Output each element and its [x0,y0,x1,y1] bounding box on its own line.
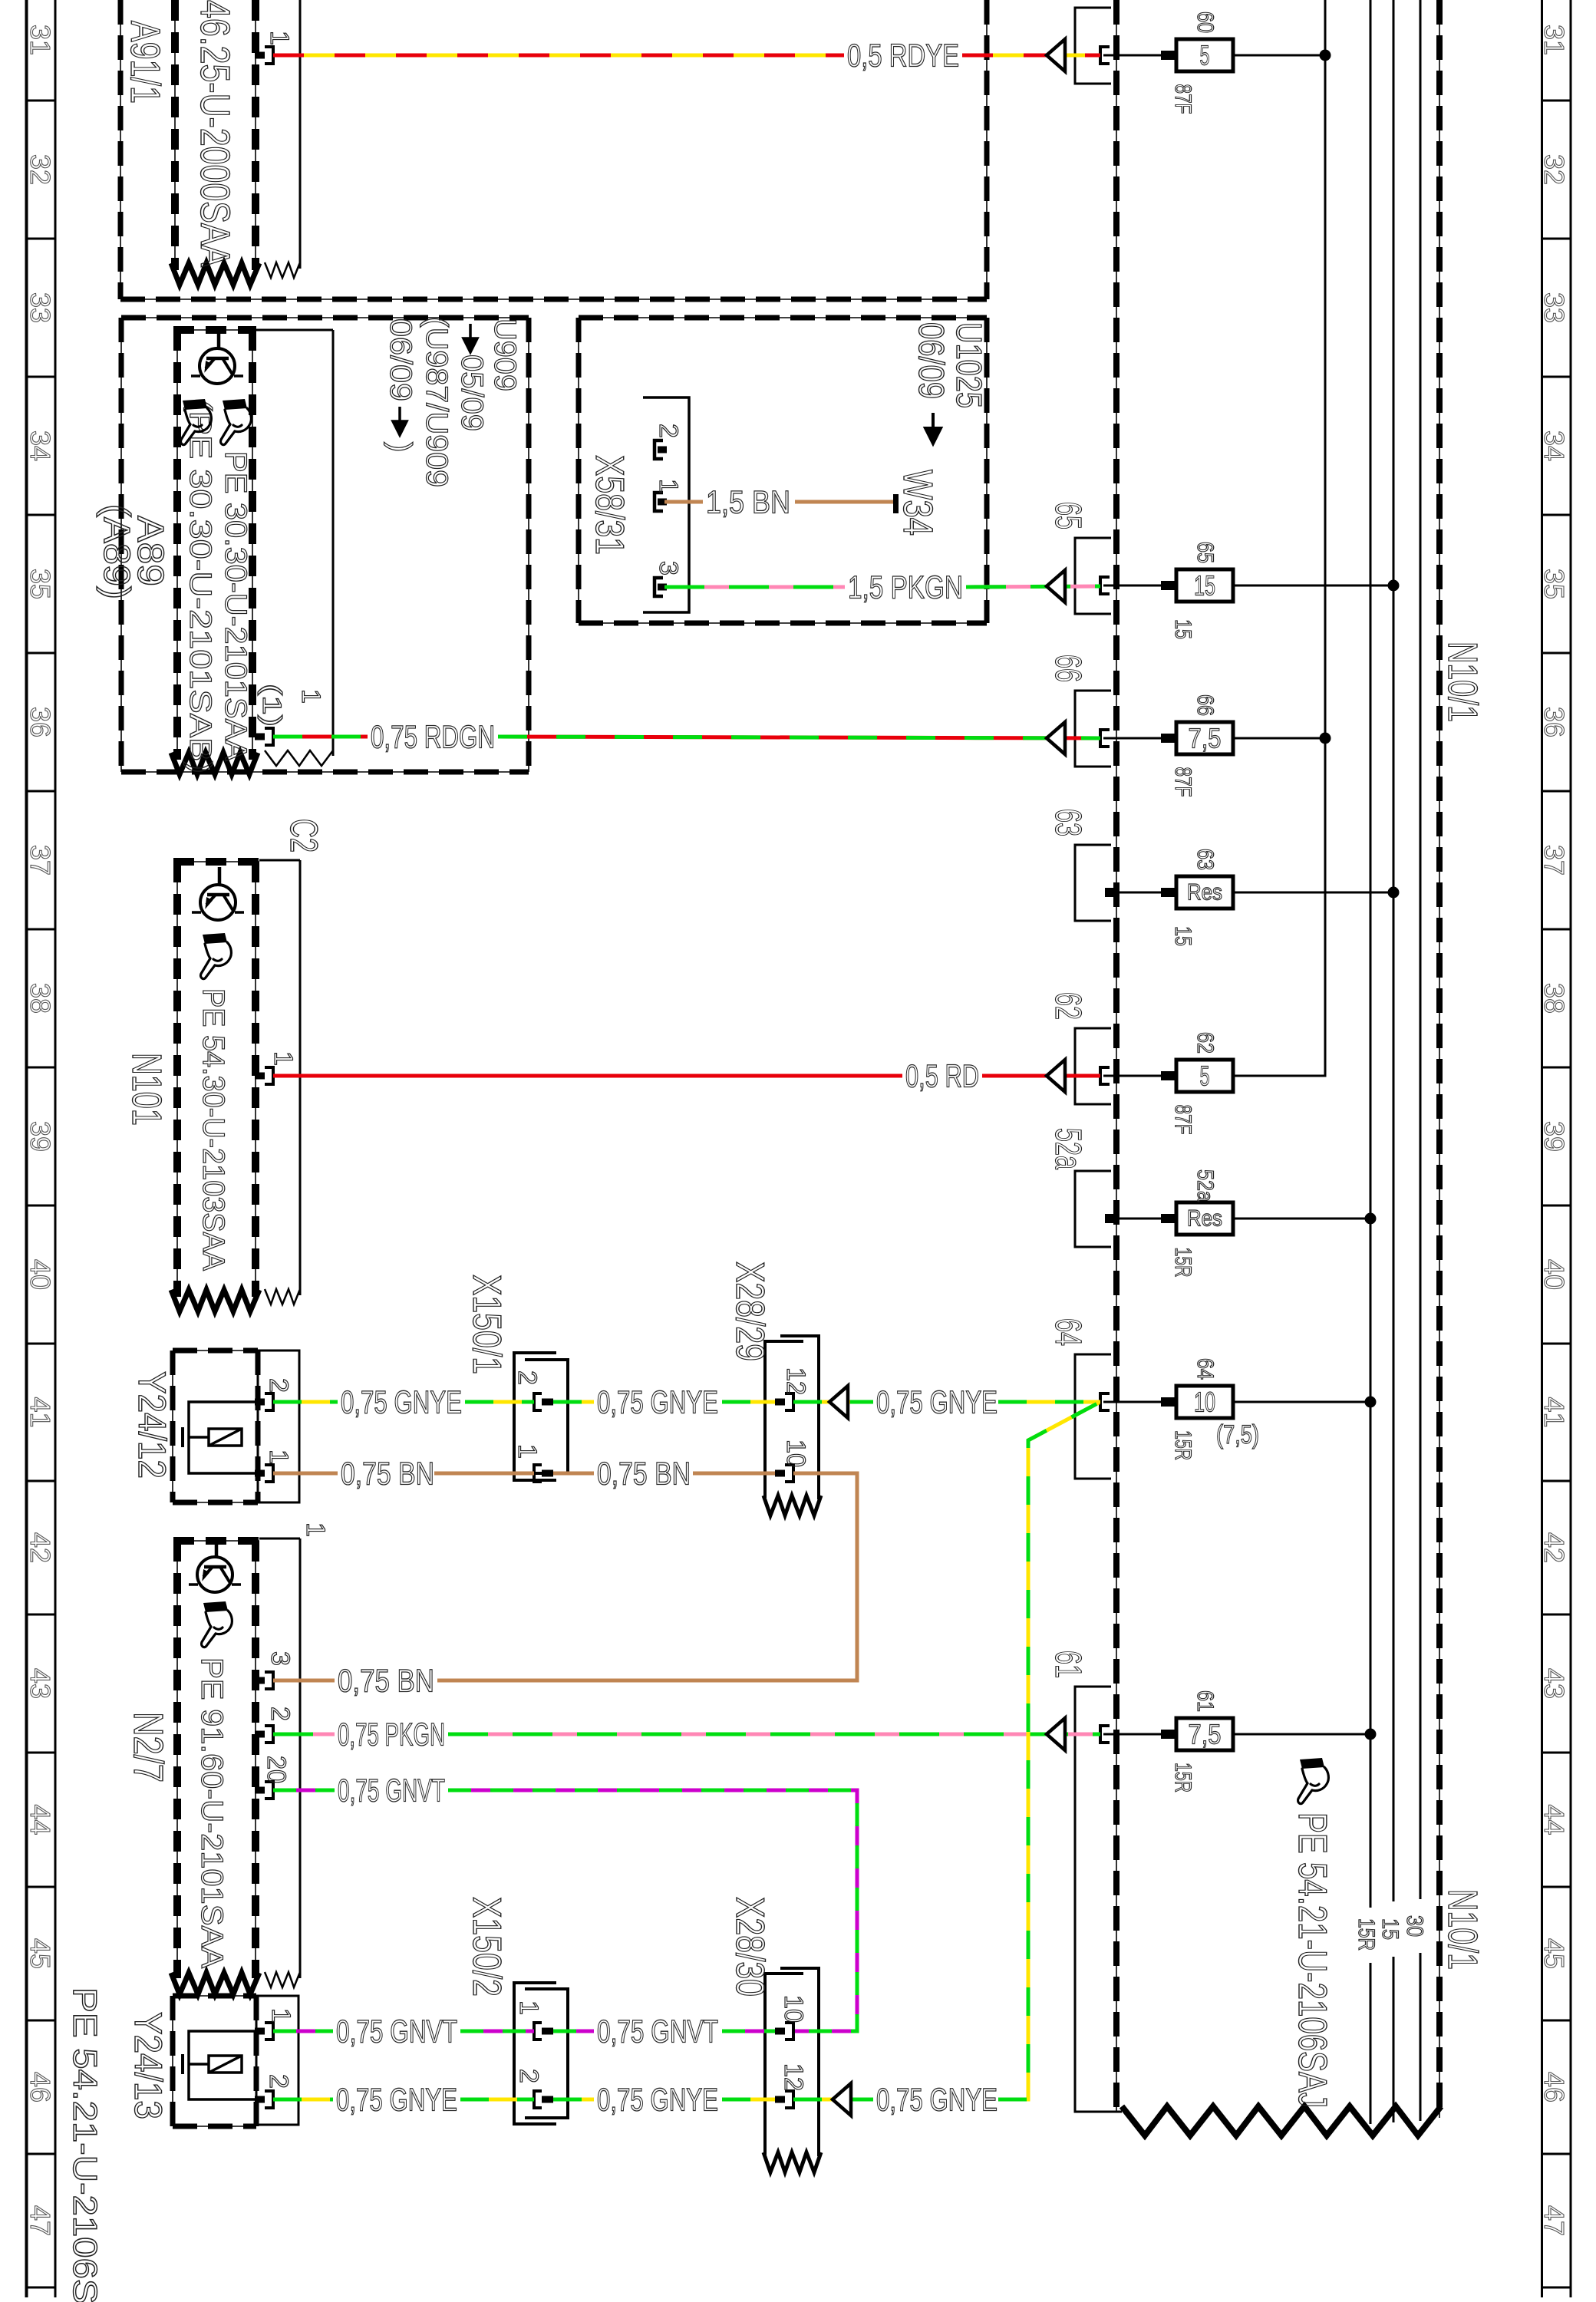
A89 inner dashed module PE 30.30-U-2101SAA [171,330,258,774]
wire 1,5 BN from X58/31 pin1 to ground W34 [664,484,893,520]
svg-text:X58/31: X58/31 [587,455,631,555]
solenoid valve Y24/12 dash-dot box [173,1351,258,1502]
svg-text:66: 66 [1047,655,1088,682]
wire 0,75 GNYE Y24/12 pin2 to X150/1 pin2 [273,1384,534,1420]
svg-text:87F: 87F [1170,767,1195,797]
svg-text:15: 15 [1170,926,1195,946]
svg-text:46.25-U-2000SAA: 46.25-U-2000SAA [192,0,238,267]
svg-text:0,75 BN: 0,75 BN [338,1663,434,1699]
A89 transistor symbol [199,348,235,384]
svg-text:46: 46 [25,2072,56,2102]
fuse 65 (15A, circuit 15) [1047,502,1400,639]
A89 pin (1) 1 [255,684,325,745]
N2/7 note hand [202,1601,232,1647]
Y24/12 pin 1 [255,1449,293,1482]
svg-text:0,75 BN: 0,75 BN [597,1456,691,1492]
svg-text:65: 65 [1192,542,1218,563]
svg-text:N101: N101 [124,1053,170,1126]
bus wire 15 [1377,0,1403,2122]
wire 0,75 BN X150/1 pin1 to X28/29 pin10 [553,1456,775,1492]
svg-text:31: 31 [1538,25,1570,55]
svg-text:45: 45 [25,1938,56,1969]
svg-text:60: 60 [1192,12,1218,33]
X28/30 pin 10 [775,1995,808,2040]
svg-text:3: 3 [265,1651,295,1666]
ground terminal W34 [893,470,941,536]
svg-text:15: 15 [1170,619,1195,639]
control unit N101 dashed box PE 54.30-U-2103SAA [171,862,259,1311]
svg-text:0,5 RDYE: 0,5 RDYE [847,38,959,74]
svg-text:64: 64 [1047,1318,1088,1346]
svg-text:1: 1 [301,1522,330,1537]
svg-text:87F: 87F [1170,84,1195,114]
svg-text:0,75 BN: 0,75 BN [341,1456,434,1492]
wire 0,75 GNYE Y24/13 pin2 to X150/2 pin2 [273,2082,534,2118]
svg-text:): ) [384,442,417,452]
svg-text:(7,5): (7,5) [1216,1420,1259,1449]
X58/31 pin 1 [654,479,683,511]
svg-text:0,75 GNYE: 0,75 GNYE [597,2082,718,2118]
bus wire 30 [1402,0,1427,2121]
svg-text:N10/1: N10/1 [1439,1889,1486,1970]
bus wire 15R [1354,0,1379,2124]
wire 0,75 GNVT Y24/13 pin1 to X150/2 pin1 [273,2013,534,2050]
svg-text:2: 2 [513,1370,542,1385]
note hand + PE 54.21-U-2106SAJ inside N10/1 [1290,1758,1334,2108]
svg-text:X150/1: X150/1 [464,1275,509,1374]
svg-text:43: 43 [1538,1668,1570,1699]
svg-text:7,5: 7,5 [1189,1719,1222,1750]
svg-text:47: 47 [1538,2205,1570,2236]
svg-text:PE 91.60-U-2101SAA: PE 91.60-U-2101SAA [195,1657,229,1968]
A91/1 pin 1 [255,31,294,64]
svg-text:33: 33 [1538,292,1570,323]
svg-text:87F: 87F [1170,1105,1195,1135]
N2/7 pin 2 [255,1707,295,1743]
fuse 60 (5A 87F) [1075,8,1331,114]
Y24/12 pin 2 [255,1378,293,1410]
svg-text:0,75 GNYE: 0,75 GNYE [876,1384,998,1420]
svg-text:37: 37 [1538,845,1570,876]
svg-text:(U987/U909: (U987/U909 [420,317,453,487]
svg-text:35: 35 [1538,569,1570,599]
svg-text:X150/2: X150/2 [464,1897,509,1997]
fuse 63 (reserve, circuit 15) [1047,809,1400,946]
svg-text:15R: 15R [1170,1430,1195,1460]
svg-text:PE 30.30-U-2101SAA: PE 30.30-U-2101SAA [219,451,252,761]
svg-text:1: 1 [296,689,325,704]
svg-text:38: 38 [25,983,56,1014]
svg-text:1: 1 [264,1449,293,1464]
svg-text:U909: U909 [488,318,522,391]
bus wire 87F feed [1233,0,1325,1076]
wire 1,5 PKGN from X58/31 pin3 to fuse 65 [664,569,1100,605]
svg-text:32: 32 [1538,154,1570,185]
A91/1 inner dashed module 46.25-U-2000SAA [171,0,259,285]
svg-text:Y24/12: Y24/12 [130,1371,173,1479]
svg-text:PE 54.21-U-2106SAJ: PE 54.21-U-2106SAJ [1290,1812,1334,2108]
svg-text:38: 38 [1538,983,1570,1014]
svg-text:43: 43 [25,1668,56,1699]
A89 note hands [181,399,212,445]
svg-text:12: 12 [779,2063,808,2091]
X28/29 pin 10 [775,1440,810,1482]
svg-text:7,5: 7,5 [1189,723,1222,754]
A89 connector bar [256,330,333,766]
wire 0,75 GNYE X28/29 pin12 to fuse 64 with junction from Y24/13 [793,1384,1100,1420]
Y24/13 connector bar [256,1996,298,2125]
svg-text:0,75 GNYE: 0,75 GNYE [341,1384,462,1420]
svg-text:W34: W34 [895,470,941,536]
svg-text:15R: 15R [1170,1763,1195,1792]
svg-text:5: 5 [1200,1060,1210,1092]
svg-text:35: 35 [25,569,56,599]
Y24/12 internal wiring [189,1402,255,1473]
svg-text:32: 32 [25,154,56,185]
Y24/13 pin 1 [255,2008,295,2040]
X28/29 pin 12 [775,1367,810,1410]
X150/2 pin 2 [514,2069,553,2108]
N101 transistor symbol [200,885,236,920]
svg-text:2: 2 [654,424,683,438]
svg-text:X28/30: X28/30 [727,1897,772,1997]
X150/1 pin 1 [513,1444,553,1482]
connector X28/30 [727,1897,821,2172]
wire 0,75 GNVT N2/7 pin20 to X28/30 pin10 (down corner) [273,1773,857,2032]
svg-text:62: 62 [1047,992,1088,1020]
control unit N2/7 dashed box PE 91.60-U-2101SAA [171,1541,259,1994]
X28/30 pin 12 [775,2063,808,2108]
A91/1 connector bar [265,0,300,278]
svg-text:66: 66 [1192,694,1218,716]
svg-text:62: 62 [1192,1032,1218,1054]
svg-text:0,75 GNYE: 0,75 GNYE [876,2082,998,2118]
svg-text:20: 20 [262,1756,291,1783]
svg-text:Res: Res [1187,880,1222,905]
svg-text:X28/29: X28/29 [727,1261,772,1361]
wire 0,5 RDYE from A91/1 pin1 to fuse 60 [273,38,1100,74]
wire 0,75 BN X28/29 pin10 to N2/7 pin3 (loop) [273,1473,857,1699]
svg-text:41: 41 [25,1397,56,1428]
svg-text:40: 40 [25,1259,56,1290]
N2/7 transistor symbol [197,1557,232,1592]
svg-text:10: 10 [779,1995,808,2023]
svg-text:0,75 GNVT: 0,75 GNVT [597,2013,718,2050]
svg-text:3: 3 [654,561,683,575]
svg-text:U1025: U1025 [949,322,989,408]
Y24/12 connector bar [258,1351,299,1502]
fuse 62 (5A 87F) [1047,992,1233,1135]
svg-text:Y24/13: Y24/13 [127,2012,170,2119]
svg-text:52a: 52a [1192,1169,1218,1202]
svg-text:2: 2 [265,1707,295,1721]
Y24/13 pin 2 [255,2074,293,2108]
fuse 64 (10A, 15R, (7,5)) [1047,1318,1377,1479]
svg-text:5: 5 [1200,40,1210,71]
svg-text:52a: 52a [1047,1128,1088,1169]
svg-text:06/09: 06/09 [912,322,951,399]
wire 0,75 BN Y24/12 pin1 to X150/1 pin1 [273,1456,534,1492]
X150/2 pin 1 [514,2000,553,2040]
svg-text:N10/1: N10/1 [1439,641,1486,722]
svg-text:45: 45 [1538,1938,1570,1969]
Y24/13 internal wiring [189,2031,255,2099]
svg-text:Res: Res [1187,1206,1222,1232]
svg-text:61: 61 [1192,1690,1218,1712]
svg-text:65: 65 [1047,502,1088,529]
svg-text:44: 44 [25,1805,56,1835]
svg-text:1,5 PKGN: 1,5 PKGN [848,569,963,605]
svg-text:0,75 GNYE: 0,75 GNYE [597,1384,718,1420]
svg-text:1: 1 [266,2008,295,2023]
svg-text:1,5 BN: 1,5 BN [706,484,790,520]
X150/1 pin 2 [513,1370,553,1410]
svg-text:10: 10 [1194,1387,1215,1418]
svg-text:64: 64 [1192,1358,1218,1380]
svg-text:(1): (1) [257,684,286,727]
svg-text:2: 2 [264,2074,293,2089]
N10/1 torn bottom edge zigzag [1122,2106,1441,2135]
fuse 66 (7,5A 87F) [1047,655,1331,797]
svg-text:2: 2 [514,2069,543,2083]
fuse 61 (7,5A 15R) [1047,1651,1377,2112]
wire 0,75 GNYE X150/2 pin2 to X28/30 pin12 [553,2082,775,2118]
svg-text:41: 41 [1538,1397,1570,1428]
svg-text:63: 63 [1192,849,1218,870]
Y24/12 valve symbol [209,1429,242,1446]
control unit A91/1 outer dash-dot box [120,0,987,299]
svg-text:39: 39 [1538,1121,1570,1152]
svg-text:36: 36 [1538,707,1570,737]
N2/7 connector bar 1 [259,1522,330,1987]
svg-text:63: 63 [1047,809,1088,836]
svg-text:2: 2 [264,1378,293,1393]
svg-text:0,75 GNVT: 0,75 GNVT [336,2013,457,2050]
svg-text:15: 15 [1194,570,1215,602]
svg-text:0,75 RDGN: 0,75 RDGN [371,719,495,755]
svg-text:05/09: 05/09 [455,355,489,431]
wire 0,75 GNYE X150/1 pin2 to X28/29 pin12 [553,1384,775,1420]
N10/1 dash-dot border right edge [1439,0,1440,2118]
wire 0,75 PKGN N2/7 pin2 to fuse 61 [273,1717,1100,1753]
U1025 labels [912,322,989,444]
svg-text:1: 1 [654,479,683,493]
X58/31 pin 3 [654,561,683,596]
svg-text:37: 37 [25,845,56,876]
wire 0,5 RD from N101 pin1 to fuse 62 [273,1058,1100,1094]
svg-text:39: 39 [25,1121,56,1152]
svg-text:10: 10 [781,1440,810,1467]
connector X150/1 [464,1275,568,1480]
connector X150/2 [464,1897,568,2124]
A89 versions text U909 [384,317,522,487]
N101 note hand [201,933,232,979]
svg-text:47: 47 [25,2205,56,2236]
Y24/13 valve symbol [209,2056,242,2073]
control unit A89 outer dash-dot box [121,318,529,772]
N2/7 pin 20 [255,1756,291,1799]
connector X58/31 [587,397,689,612]
svg-text:0,75 PKGN: 0,75 PKGN [338,1717,445,1753]
svg-text:0,75 GNYE: 0,75 GNYE [336,2082,457,2118]
svg-text:0,5 RD: 0,5 RD [905,1058,979,1094]
A89 label [96,504,170,599]
svg-text:34: 34 [1538,430,1570,461]
svg-text:34: 34 [25,430,56,461]
svg-text:(A89): (A89) [96,504,137,599]
svg-text:N2/7: N2/7 [125,1712,171,1783]
svg-text:42: 42 [25,1532,56,1563]
coupler unit U1025 dash-dot box [579,318,987,623]
svg-text:0,75 GNVT: 0,75 GNVT [338,1773,445,1809]
N101 connector bar C2 [259,819,325,1304]
wire 0,75 GNVT X150/2 pin1 to X28/30 pin10 [553,2013,775,2050]
solenoid valve Y24/13 dash-dot box [173,1996,256,2126]
svg-text:12: 12 [781,1367,810,1395]
svg-text:1: 1 [265,31,294,45]
svg-text:C2: C2 [282,819,325,853]
svg-text:44: 44 [1538,1805,1570,1835]
N2/7 pin 3 [255,1651,295,1689]
svg-text:42: 42 [1538,1532,1570,1563]
svg-text:30: 30 [1402,1915,1427,1937]
svg-text:(PE 30.30-U-2101SAB): (PE 30.30-U-2101SAB) [183,399,217,773]
connector X28/29 [727,1261,821,1515]
svg-text:PE 54.21-U-2106SAJ: PE 54.21-U-2106SAJ [66,1987,104,2302]
svg-text:1: 1 [514,2000,543,2015]
X58/31 pin 2 [654,424,683,459]
svg-text:31: 31 [25,25,56,55]
svg-text:15R: 15R [1354,1918,1379,1951]
svg-text:1: 1 [269,1051,298,1066]
fuse/relay box N10/1 dash-dot border left edge [1116,0,1117,2112]
fuse 52a (reserve, 15R) [1047,1128,1377,1278]
wire 0,75 GNYE X28/30 pin12 up to fuse 64 junction [793,1403,1099,2118]
svg-text:1: 1 [513,1444,542,1459]
N101 pin 1 [255,1051,298,1084]
svg-text:33: 33 [25,292,56,323]
svg-text:PE 54.30-U-2103SAA: PE 54.30-U-2103SAA [196,988,230,1271]
svg-text:A91/1: A91/1 [122,21,168,104]
svg-text:06/09: 06/09 [384,318,417,401]
svg-text:61: 61 [1047,1651,1088,1678]
svg-text:15R: 15R [1170,1248,1195,1278]
ruler right [1538,0,1571,2297]
ruler left [25,0,56,2297]
svg-text:15: 15 [1377,1918,1403,1940]
svg-text:40: 40 [1538,1259,1570,1290]
svg-text:36: 36 [25,707,56,737]
svg-text:46: 46 [1538,2072,1570,2102]
wire 0,75 RDGN from A89 pin1 to fuse 66 [273,719,1100,755]
